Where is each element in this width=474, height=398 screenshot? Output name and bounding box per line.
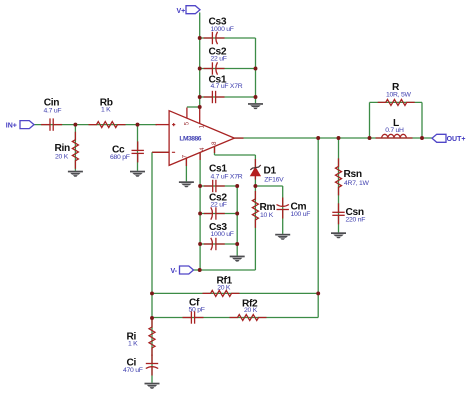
svg-text:20 K: 20 K	[55, 154, 69, 161]
svg-text:IN+: IN+	[6, 123, 17, 130]
svg-text:4: 4	[199, 147, 206, 151]
svg-text:Rin: Rin	[55, 143, 70, 154]
svg-text:4.7 uF X7R: 4.7 uF X7R	[211, 174, 243, 181]
svg-text:1000 uF: 1000 uF	[211, 231, 234, 238]
svg-text:OUT+: OUT+	[447, 136, 466, 143]
svg-text:7: 7	[181, 154, 188, 158]
svg-text:4R7, 1W: 4R7, 1W	[344, 180, 370, 187]
svg-text:ZF16V: ZF16V	[264, 177, 284, 184]
svg-text:100 uF: 100 uF	[291, 211, 311, 218]
svg-text:470 uF: 470 uF	[123, 367, 143, 374]
svg-text:V-: V-	[171, 268, 178, 275]
svg-text:22 uF: 22 uF	[211, 201, 227, 208]
svg-text:0.7 uH: 0.7 uH	[385, 127, 404, 134]
svg-text:1000 uF: 1000 uF	[211, 26, 234, 33]
svg-text:LM3886: LM3886	[179, 136, 201, 143]
svg-text:5: 5	[183, 121, 190, 125]
svg-text:10 K: 10 K	[260, 212, 274, 219]
svg-text:1 K: 1 K	[101, 107, 111, 114]
svg-text:680 pF: 680 pF	[110, 154, 130, 161]
svg-text:220 nF: 220 nF	[346, 217, 366, 224]
svg-text:1: 1	[198, 125, 205, 129]
svg-text:22 uF: 22 uF	[211, 55, 227, 62]
svg-text:20 K: 20 K	[217, 284, 231, 291]
svg-text:D1: D1	[264, 165, 277, 176]
svg-text:8: 8	[211, 141, 218, 145]
svg-text:20 K: 20 K	[244, 307, 258, 314]
svg-text:50 pF: 50 pF	[189, 306, 205, 313]
svg-text:V+: V+	[177, 8, 186, 15]
svg-text:4.7 uF X7R: 4.7 uF X7R	[211, 83, 243, 90]
svg-text:4.7 uF: 4.7 uF	[44, 107, 62, 114]
svg-text:10R, 5W: 10R, 5W	[386, 91, 412, 98]
svg-text:1 K: 1 K	[128, 341, 138, 348]
svg-text:Rsn: Rsn	[344, 169, 362, 180]
